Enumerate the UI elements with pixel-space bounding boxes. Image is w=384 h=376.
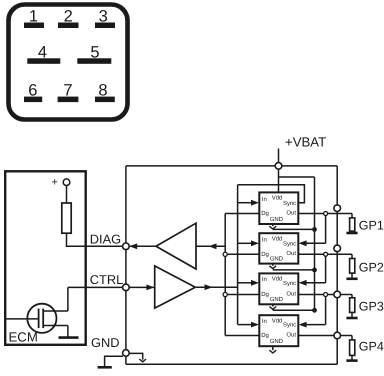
wire sync chain Out3 to Sync4: [325, 295, 327, 325]
svg-text:DIAG: DIAG: [90, 232, 121, 247]
junction dot GND row 2: [312, 268, 317, 273]
ECM internal ground bar: [59, 336, 79, 339]
svg-text:Vdd: Vdd: [272, 235, 282, 242]
svg-text:Sync: Sync: [283, 240, 296, 247]
junction circle Dg bus row 3: [223, 292, 227, 296]
node GND terminal: [123, 350, 130, 357]
junction circle Dg bus row 2: [223, 252, 227, 256]
ground bar GP4: [346, 359, 357, 362]
internal supply terminal circle: [63, 179, 70, 186]
connector J1 outline (8-pin relay socket): [9, 5, 128, 120]
glow plug load resistor GP3: [350, 298, 355, 313]
wire GP4 terminal to load: [351, 336, 353, 340]
svg-text:Dg: Dg: [261, 332, 269, 339]
wire GP2 terminal to load: [351, 254, 353, 258]
wire CTRL terminal to U3 input: [129, 286, 155, 288]
svg-text:5: 5: [90, 43, 99, 61]
svg-text:In: In: [262, 196, 267, 203]
wire Vdd bus vertical: [314, 177, 316, 310]
CTRL wire to terminal: [68, 286, 123, 288]
svg-text:GND: GND: [91, 335, 119, 350]
svg-text:GP1: GP1: [359, 218, 384, 232]
wire bottom ground rail: [126, 363, 337, 365]
wire GND terminal to bottom rail: [129, 353, 143, 359]
driver IC U6 (channel 3) with pins In Vdd Sync Dg Out GND: [259, 273, 298, 304]
svg-text:4: 4: [38, 43, 47, 61]
wire GP3 resistor to ground: [351, 312, 353, 318]
svg-text:GND: GND: [270, 296, 284, 303]
wire +VBAT stub: [278, 149, 280, 164]
wire U5 Out pin to load GP2: [298, 253, 352, 255]
svg-text:Vdd: Vdd: [272, 317, 282, 324]
wire Vdd feed from +VBAT: [278, 163, 280, 193]
wire U6 Dg pin to Dg bus: [225, 294, 259, 296]
ECM module box: [5, 171, 86, 344]
svg-text:ECM: ECM: [9, 330, 38, 345]
wire In bus to U5 In pin: [238, 242, 252, 244]
glow plug load resistor GP2: [350, 259, 355, 274]
arrow GND to rail: [139, 359, 146, 362]
svg-text:Vdd: Vdd: [272, 195, 282, 202]
wire U3 output to In bus: [195, 286, 237, 288]
wire U2 input from Dg bus: [196, 245, 225, 247]
arrow U4 GND pin: [269, 226, 276, 229]
arrow into U6 In pin: [251, 280, 259, 286]
arrow into U3 input: [146, 285, 154, 291]
wire U6 GND row to Vdd bus: [273, 309, 315, 311]
wire U6 Out pin to load GP3: [298, 294, 352, 296]
node GP4 terminal: [334, 332, 341, 339]
arrow into DIAG terminal: [129, 243, 137, 249]
ground bar GP2: [346, 277, 357, 280]
wire left interface bus: [125, 166, 127, 364]
wire +VBAT top rail: [126, 165, 337, 167]
wire Sync chain into U6: [306, 282, 326, 284]
svg-text:Out: Out: [286, 331, 296, 338]
junction circle Out row 1: [324, 212, 328, 216]
pin 2 terminal bar: [58, 23, 79, 29]
arrow U5 GND pin: [269, 266, 276, 269]
wire U7 Dg pin to Dg bus: [225, 335, 259, 337]
svg-text:8: 8: [98, 81, 107, 99]
Q1 drain to CTRL wire: [67, 287, 69, 311]
arrow U7 GND pin: [269, 350, 276, 353]
svg-text:Out: Out: [286, 250, 296, 257]
pin 5 terminal bar: [77, 58, 111, 64]
svg-text:In: In: [262, 237, 267, 244]
buffer U3 CTRL driver triangle: [155, 266, 196, 308]
svg-text:Out: Out: [286, 209, 296, 216]
wire U2 output to DIAG terminal: [130, 245, 157, 247]
driver IC U5 (channel 2) with pins In Vdd Sync Dg Out GND: [259, 233, 298, 263]
Q1 drain stub: [43, 310, 68, 312]
wire In bus to U4 In pin: [238, 202, 252, 204]
svg-text:6: 6: [28, 81, 37, 99]
arrow into U4 In pin: [251, 200, 259, 206]
wire sync chain Out1 to Sync2: [325, 214, 327, 244]
junction dot GND row 1: [312, 227, 317, 232]
Q1 channel bar: [42, 309, 44, 329]
Q1 source stub: [43, 325, 68, 327]
node GP2 terminal: [334, 245, 341, 252]
wire GP3 terminal to load: [351, 295, 353, 298]
svg-text:1: 1: [29, 8, 38, 26]
svg-text:Sync: Sync: [283, 280, 296, 287]
wire U7 GND pin stub: [272, 346, 274, 350]
svg-text:Dg: Dg: [261, 291, 269, 298]
glow plug load resistor GP1: [350, 218, 355, 231]
svg-text:CTRL: CTRL: [90, 272, 123, 287]
node GP3 terminal: [334, 291, 341, 298]
ground bar GP1: [346, 232, 357, 235]
svg-text:+: +: [52, 177, 58, 189]
arrow on U3 output: [205, 284, 213, 290]
svg-text:GP3: GP3: [359, 300, 384, 314]
pin 4 terminal bar: [27, 58, 60, 64]
ground bar GP3: [346, 317, 357, 320]
driver IC U4 (channel 1) with pins In Vdd Sync Dg Out GND: [259, 192, 298, 224]
pin 3 terminal bar: [95, 23, 115, 29]
wire In bus to U6 In pin: [238, 282, 252, 284]
svg-text:GND: GND: [270, 338, 284, 345]
wire In bus vertical: [237, 185, 239, 325]
svg-text:GP4: GP4: [359, 340, 384, 354]
wire U7 Out pin to load GP4: [298, 335, 352, 337]
pull-up resistor R1: [62, 203, 71, 233]
glow plug load resistor GP4: [350, 340, 355, 356]
wire Dg bus vertical: [224, 214, 226, 336]
svg-text:Out: Out: [286, 290, 296, 297]
wire R1 to DIAG: [67, 233, 123, 246]
wire GND terminal to external ground: [105, 356, 123, 366]
wire Sync chain into U7: [306, 324, 326, 326]
wire sync chain Out2 to Sync3: [325, 254, 327, 282]
svg-text:GND: GND: [270, 256, 284, 263]
wire Vdd bus top: [279, 176, 315, 178]
pin 8 terminal bar: [95, 97, 115, 103]
junction dot GND row 3: [312, 308, 317, 313]
arrow U6 GND pin: [269, 307, 276, 310]
wire sync feed top: [238, 185, 305, 203]
arrow into U7 Sync pin: [299, 322, 307, 328]
node DIAG terminal: [123, 243, 130, 250]
svg-text:3: 3: [99, 8, 108, 26]
Q1 source down wire: [67, 326, 69, 337]
pin 1 terminal bar: [24, 23, 44, 29]
node GP1 terminal: [334, 205, 341, 212]
arrow into U5 Sync pin: [299, 240, 307, 246]
wire right interface bus: [336, 166, 338, 364]
wire supply terminal to pull-up resistor: [66, 186, 68, 204]
wire U5 GND pin stub: [272, 264, 274, 266]
arrow into U7 In pin: [251, 322, 259, 328]
svg-text:Sync: Sync: [283, 200, 296, 207]
svg-text:GP2: GP2: [359, 260, 384, 274]
wire GP4 resistor to ground: [351, 355, 353, 360]
driver IC U7 (channel 4) with pins In Vdd Sync Dg Out GND: [259, 315, 298, 346]
arrow into U2 input: [209, 243, 217, 249]
wire In bus to U7 In pin: [238, 324, 252, 326]
wire U4 GND row to Vdd bus: [273, 228, 315, 230]
svg-text:In: In: [262, 318, 267, 325]
node +VBAT terminal: [275, 163, 282, 170]
buffer U2 DIAG amplifier triangle: [156, 223, 196, 269]
wire U4 Out pin to load GP1: [298, 213, 352, 215]
pin 6 terminal bar: [24, 97, 42, 103]
wire U5 Dg pin to Dg bus: [225, 253, 259, 255]
Q1 gate bar: [38, 309, 40, 329]
wire GP1 terminal to load: [351, 214, 353, 218]
wire Dg bus to driver1 Dg: [225, 213, 259, 215]
wire U4 GND pin stub: [272, 224, 274, 226]
junction circle Out row 2: [324, 252, 328, 256]
svg-text:2: 2: [64, 8, 73, 26]
svg-text:+VBAT: +VBAT: [285, 135, 326, 150]
Q1 gate wire from ECM internals: [5, 318, 38, 320]
svg-text:Sync: Sync: [283, 322, 296, 329]
svg-text:In: In: [262, 276, 267, 283]
pin 7 terminal bar: [58, 97, 79, 103]
wire U5 GND row to Vdd bus: [273, 269, 315, 271]
wire GP2 resistor to ground: [351, 273, 353, 279]
wire U6 GND pin stub: [272, 304, 274, 306]
svg-text:Dg: Dg: [261, 210, 269, 217]
node CTRL terminal: [123, 284, 130, 291]
svg-text:7: 7: [63, 81, 72, 99]
transistor Q1 body circle: [27, 304, 56, 333]
arrow into U5 In pin: [251, 240, 259, 246]
svg-text:Dg: Dg: [261, 251, 269, 258]
svg-text:GND: GND: [270, 216, 284, 223]
wire Sync chain into U5: [306, 242, 326, 244]
arrow into U6 Sync pin: [299, 280, 307, 286]
svg-text:Vdd: Vdd: [272, 276, 282, 283]
junction circle Out row 3: [324, 293, 328, 297]
wire GP1 resistor to ground: [351, 231, 353, 233]
external ground bar: [98, 366, 112, 369]
